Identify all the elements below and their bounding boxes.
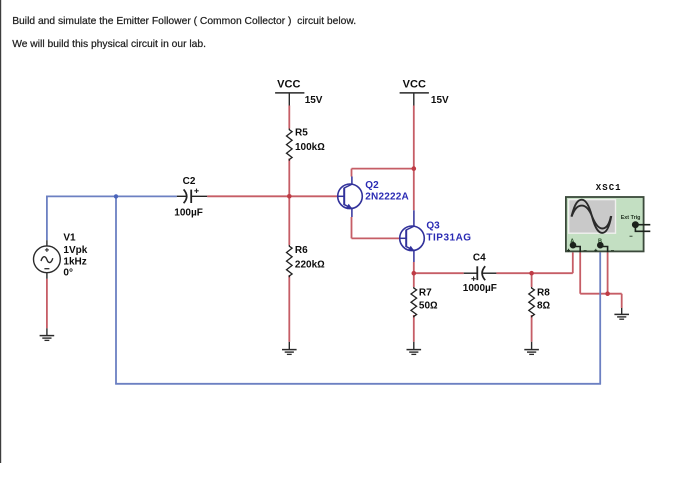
- svg-text:2N2222A: 2N2222A: [365, 192, 409, 203]
- svg-text:TIP31AG: TIP31AG: [426, 233, 471, 244]
- svg-text:V1: V1: [63, 233, 76, 244]
- svg-text:1Vpk: 1Vpk: [63, 245, 87, 256]
- svg-text:100kΩ: 100kΩ: [295, 142, 325, 153]
- svg-text:Build and simulate the Emitter: Build and simulate the Emitter Follower …: [12, 16, 356, 27]
- svg-text:220kΩ: 220kΩ: [295, 259, 325, 270]
- svg-text:1kHz: 1kHz: [63, 256, 86, 267]
- svg-text:1000µF: 1000µF: [463, 283, 497, 294]
- svg-text:Ext Trig: Ext Trig: [621, 215, 641, 221]
- svg-text:R8: R8: [537, 287, 550, 298]
- svg-text:C2: C2: [183, 176, 196, 187]
- svg-text:R6: R6: [295, 245, 308, 256]
- svg-text:R5: R5: [295, 128, 308, 139]
- svg-text:R7: R7: [419, 287, 432, 298]
- svg-text:We will build this physical ci: We will build this physical circuit in o…: [12, 39, 206, 50]
- svg-text:Q2: Q2: [365, 180, 379, 191]
- svg-text:8Ω: 8Ω: [537, 301, 551, 312]
- svg-text:15V: 15V: [431, 95, 449, 106]
- svg-text:15V: 15V: [305, 95, 323, 106]
- svg-text:VCC: VCC: [277, 79, 300, 91]
- svg-text:100µF: 100µF: [174, 208, 203, 219]
- svg-text:Q3: Q3: [426, 220, 440, 231]
- svg-text:0°: 0°: [63, 268, 73, 279]
- svg-text:VCC: VCC: [403, 79, 426, 91]
- svg-text:XSC1: XSC1: [596, 183, 622, 193]
- svg-text:C4: C4: [473, 253, 486, 264]
- svg-text:50Ω: 50Ω: [419, 301, 438, 312]
